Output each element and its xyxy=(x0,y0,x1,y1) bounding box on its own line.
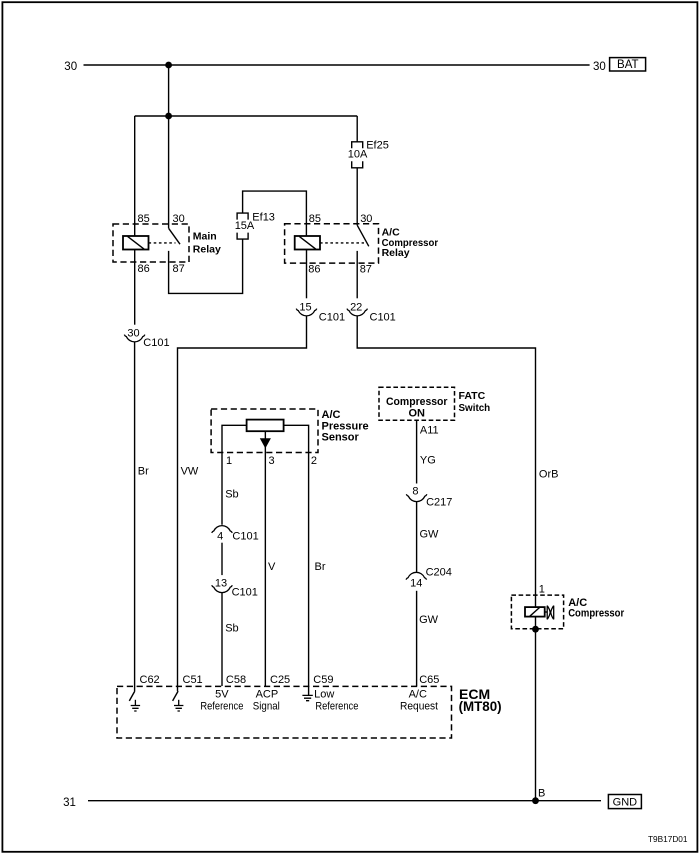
svg-text:85: 85 xyxy=(309,213,321,225)
svg-text:22: 22 xyxy=(350,301,362,313)
svg-text:3: 3 xyxy=(269,455,275,467)
svg-text:Ef25: Ef25 xyxy=(366,139,389,151)
svg-text:Request: Request xyxy=(400,701,438,713)
svg-text:Br: Br xyxy=(138,466,149,478)
svg-text:C25: C25 xyxy=(270,674,290,686)
svg-text:31: 31 xyxy=(63,797,76,809)
svg-text:FATC: FATC xyxy=(459,390,486,402)
svg-text:87: 87 xyxy=(360,264,372,276)
svg-text:Switch: Switch xyxy=(459,402,491,414)
svg-text:BAT: BAT xyxy=(617,59,639,71)
svg-text:30: 30 xyxy=(64,61,77,73)
svg-text:C62: C62 xyxy=(140,674,160,686)
svg-text:4: 4 xyxy=(217,531,223,543)
svg-text:30: 30 xyxy=(127,327,139,339)
svg-text:V: V xyxy=(268,561,276,573)
svg-text:Relay: Relay xyxy=(382,247,410,259)
svg-text:30: 30 xyxy=(360,213,372,225)
svg-text:Sensor: Sensor xyxy=(322,432,360,444)
svg-text:GND: GND xyxy=(613,796,638,808)
svg-text:5V: 5V xyxy=(215,689,229,701)
svg-text:87: 87 xyxy=(173,263,185,275)
svg-text:Compressor: Compressor xyxy=(386,396,448,408)
svg-text:A/C: A/C xyxy=(409,689,427,701)
svg-text:T9B17D01: T9B17D01 xyxy=(648,834,688,844)
svg-text:C101: C101 xyxy=(143,337,169,349)
svg-text:1: 1 xyxy=(226,455,232,467)
svg-text:15: 15 xyxy=(299,301,311,313)
svg-text:C51: C51 xyxy=(183,674,203,686)
svg-text:Relay: Relay xyxy=(193,243,221,255)
svg-text:30: 30 xyxy=(593,61,606,73)
svg-text:(MT80): (MT80) xyxy=(459,698,502,714)
svg-text:Main: Main xyxy=(193,230,217,242)
svg-text:GW: GW xyxy=(420,528,440,540)
svg-text:13: 13 xyxy=(215,578,227,590)
svg-text:86: 86 xyxy=(308,264,320,276)
svg-text:ON: ON xyxy=(409,408,426,420)
svg-text:14: 14 xyxy=(410,578,422,590)
svg-text:A/C: A/C xyxy=(322,409,341,421)
svg-text:C58: C58 xyxy=(226,674,246,686)
svg-text:30: 30 xyxy=(173,213,185,225)
svg-text:15A: 15A xyxy=(235,220,255,232)
svg-text:C101: C101 xyxy=(319,312,345,324)
svg-text:1: 1 xyxy=(539,583,545,595)
svg-text:Signal: Signal xyxy=(253,701,280,713)
svg-text:85: 85 xyxy=(138,213,150,225)
svg-text:C217: C217 xyxy=(426,497,452,509)
svg-text:Ef13: Ef13 xyxy=(252,212,275,224)
svg-text:OrB: OrB xyxy=(539,468,559,480)
svg-text:10A: 10A xyxy=(348,149,368,161)
svg-text:Reference: Reference xyxy=(315,701,358,713)
svg-text:C101: C101 xyxy=(232,587,258,599)
svg-text:B: B xyxy=(538,787,545,799)
svg-text:Sb: Sb xyxy=(225,622,238,634)
svg-text:A11: A11 xyxy=(420,425,439,437)
svg-text:8: 8 xyxy=(412,486,418,498)
svg-text:C204: C204 xyxy=(426,566,452,578)
svg-text:Reference: Reference xyxy=(200,701,243,713)
svg-text:GW: GW xyxy=(419,614,439,626)
svg-text:ACP: ACP xyxy=(256,689,279,701)
svg-text:C59: C59 xyxy=(313,674,333,686)
svg-text:C65: C65 xyxy=(419,674,439,686)
svg-text:86: 86 xyxy=(138,263,150,275)
svg-text:Compressor: Compressor xyxy=(568,608,625,620)
svg-text:C101: C101 xyxy=(232,531,258,543)
svg-text:Pressure: Pressure xyxy=(322,420,369,432)
svg-text:C101: C101 xyxy=(370,312,396,324)
svg-text:Br: Br xyxy=(315,561,326,573)
svg-text:2: 2 xyxy=(311,455,317,467)
svg-text:Low: Low xyxy=(314,689,334,701)
svg-text:Sb: Sb xyxy=(225,488,238,500)
svg-text:YG: YG xyxy=(420,455,436,467)
svg-text:VW: VW xyxy=(181,466,199,478)
